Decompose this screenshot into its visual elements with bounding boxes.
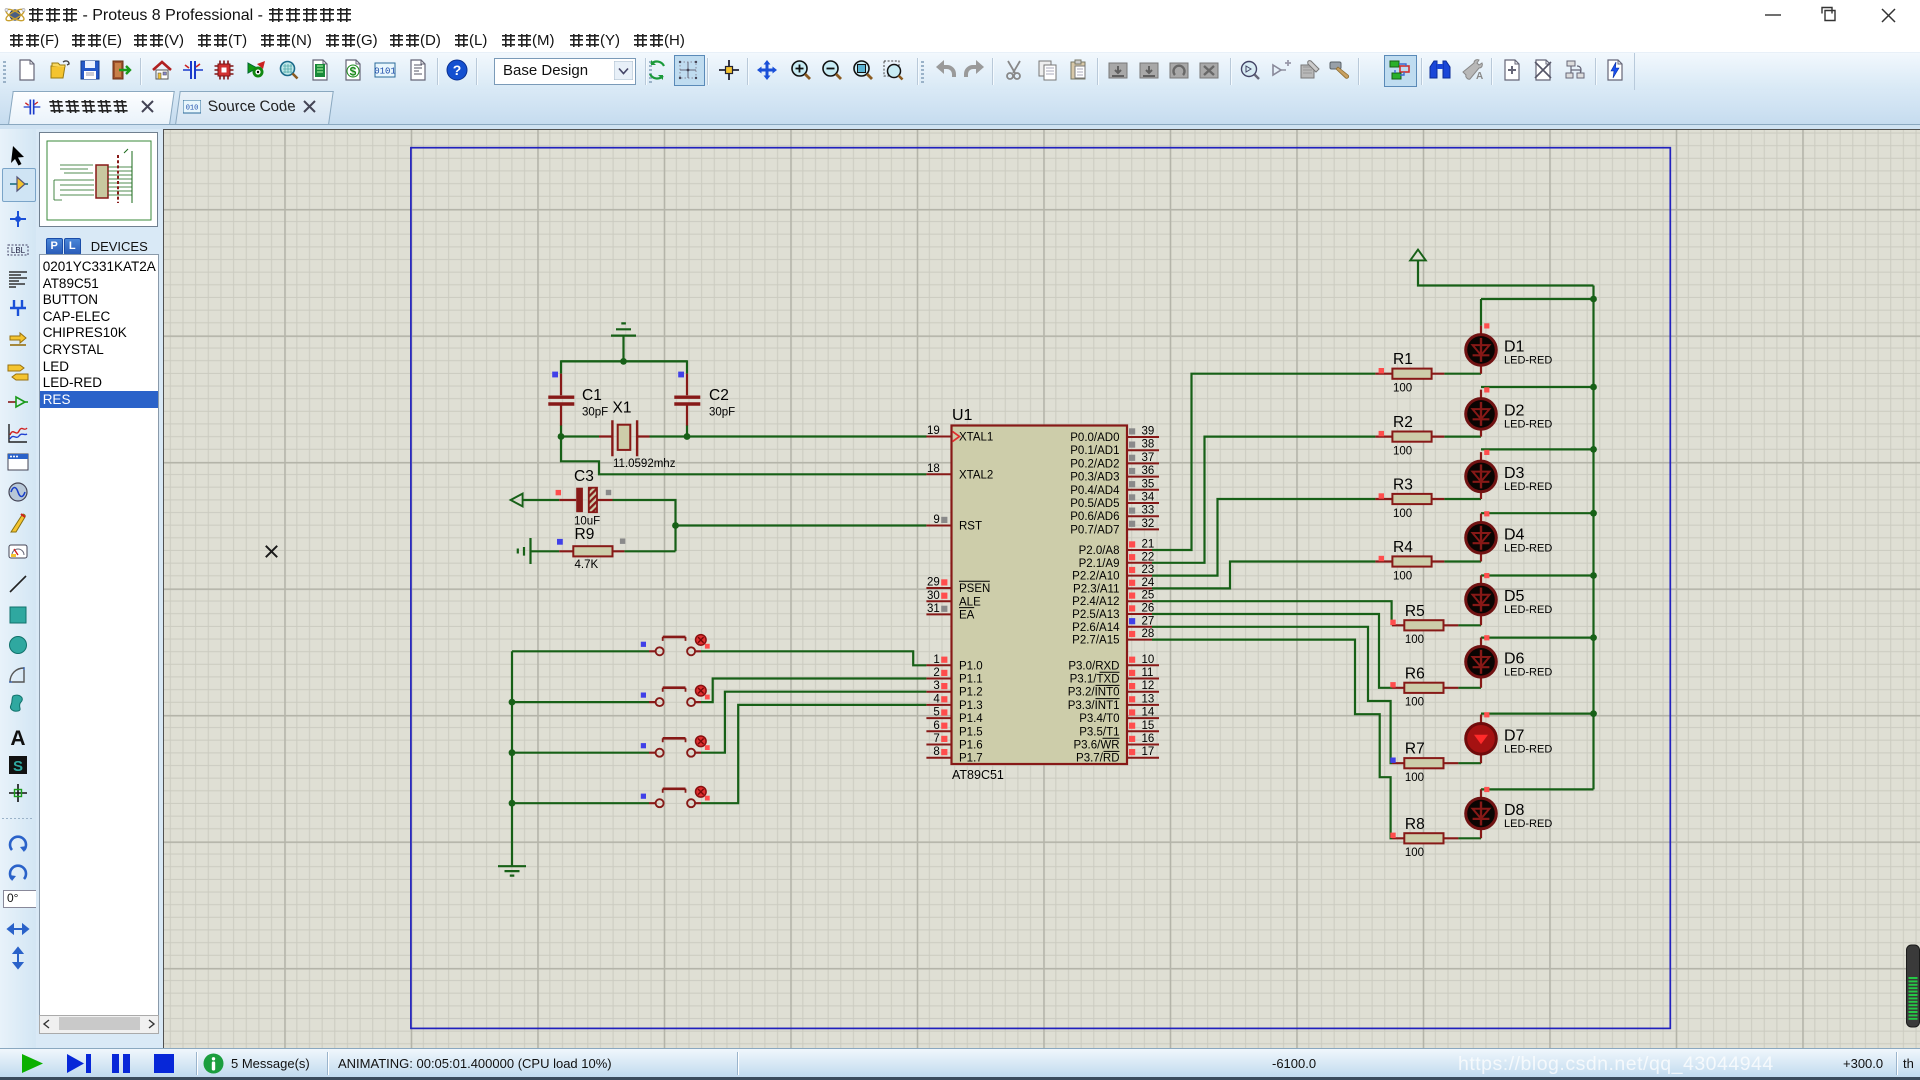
wire: D4 anode to bus <box>1481 512 1594 514</box>
resistor R5 100 <box>1390 603 1481 646</box>
junction: bus/D1 <box>1590 296 1597 303</box>
wire: P2.3 to R4 <box>1152 562 1375 589</box>
svg-text:R2: R2 <box>1393 414 1413 431</box>
left tool: rotate ccw <box>6 862 30 886</box>
svg-text:P1.5: P1.5 <box>959 726 983 738</box>
svg-text:LED-RED: LED-RED <box>1504 666 1552 678</box>
svg-text:EA: EA <box>959 609 975 621</box>
left tool: bus <box>6 296 30 320</box>
toolbar icon: paste <box>1067 58 1091 82</box>
svg-text:34: 34 <box>1142 492 1155 504</box>
svg-text:R7: R7 <box>1405 741 1425 758</box>
svg-text:D4: D4 <box>1504 526 1525 543</box>
ground (below buttons) <box>498 862 526 876</box>
left tool: voltage probe <box>6 511 30 535</box>
wire: RST to chip <box>676 524 927 526</box>
svg-text:P3.6/WR: P3.6/WR <box>1073 740 1119 752</box>
toolbar icon: zoom out <box>820 58 844 82</box>
wire: P2.6 to R7 <box>1152 627 1392 763</box>
svg-text:P1.3: P1.3 <box>959 700 983 712</box>
resistor R9 4.7K <box>557 526 625 571</box>
svg-text:32: 32 <box>1142 518 1155 530</box>
wire: P2.4 to R5 <box>1152 601 1392 625</box>
LED D1 LED-RED <box>1466 323 1553 373</box>
left tool: current probe <box>6 540 30 564</box>
left tool: graph mode <box>6 421 30 445</box>
wire: bus to button 3 <box>512 752 649 754</box>
svg-text:2: 2 <box>933 667 939 679</box>
svg-text:21: 21 <box>1142 539 1155 551</box>
svg-text:31: 31 <box>927 603 940 615</box>
junction: C2 bottom <box>684 433 691 440</box>
wire: P2.7 to R8 <box>1152 640 1392 839</box>
junction: bus/button 3 <box>509 749 516 756</box>
menu bar <box>0 30 1920 52</box>
wire: D3 anode to bus <box>1481 448 1594 450</box>
status bar <box>0 1048 1920 1078</box>
wire: LED supply bus <box>1592 286 1594 790</box>
svg-text:LED-RED: LED-RED <box>1504 604 1552 616</box>
svg-text:P0.1/AD1: P0.1/AD1 <box>1070 445 1119 457</box>
svg-text:4: 4 <box>933 693 940 705</box>
toolbar icon: remove sheet <box>1531 58 1555 82</box>
svg-text:P2.4/A12: P2.4/A12 <box>1072 596 1119 608</box>
junction: RST node <box>672 522 679 529</box>
wire: D6 anode to bus <box>1481 636 1594 638</box>
toolbar icon: 3d viewer <box>244 58 268 82</box>
left tool column <box>0 129 36 1048</box>
svg-text:R5: R5 <box>1405 603 1425 620</box>
rotation angle box <box>3 890 38 908</box>
wire: P2.2 to R3 <box>1152 499 1375 576</box>
wire: bus to button 2 <box>512 701 649 703</box>
sheet border <box>411 148 1670 1029</box>
svg-text:LED-RED: LED-RED <box>1504 743 1552 755</box>
toolbar icon: property tool <box>1460 58 1484 82</box>
junction: bus/D6 <box>1590 634 1597 641</box>
capacitor C1 <box>548 372 608 426</box>
svg-text:P1.2: P1.2 <box>959 687 983 699</box>
wire: D7 anode to bus <box>1481 712 1594 714</box>
svg-text:AT89C51: AT89C51 <box>952 768 1004 782</box>
toolbar icon: reports <box>406 58 430 82</box>
wire: P2.0 to R1 <box>1152 374 1375 550</box>
wire: D1 anode drop <box>1480 299 1482 326</box>
resistor R1 100 <box>1375 351 1481 394</box>
svg-text:30pF: 30pF <box>582 406 608 418</box>
svg-text:28: 28 <box>1142 628 1155 640</box>
svg-text:P1.4: P1.4 <box>959 713 983 725</box>
combobox Base Design <box>494 58 636 85</box>
svg-text:100: 100 <box>1405 847 1424 859</box>
svg-text:0101: 0101 <box>374 67 396 77</box>
svg-text:P0.3/AD3: P0.3/AD3 <box>1070 472 1119 484</box>
svg-text:22: 22 <box>1142 551 1155 563</box>
svg-text:C1: C1 <box>582 387 602 404</box>
wire: D1 anode to bus <box>1481 298 1594 300</box>
svg-text:100: 100 <box>1393 570 1412 582</box>
toolbar icon: packaging tool <box>1298 58 1322 82</box>
svg-text:100: 100 <box>1405 772 1424 784</box>
junction: bus/D4 <box>1590 510 1597 517</box>
svg-text:P1.7: P1.7 <box>959 753 983 765</box>
resistor R7 100 <box>1390 741 1481 784</box>
toolbar icon: pan <box>755 58 779 82</box>
power terminal (left arrow at C3) <box>511 494 560 507</box>
svg-text:X1: X1 <box>613 400 632 417</box>
svg-text:30: 30 <box>927 590 940 602</box>
svg-text:18: 18 <box>927 463 940 475</box>
toolbar icon: zoom to child <box>1564 58 1588 82</box>
wire: C3 to RST node <box>613 500 676 551</box>
left tool: 2d text <box>6 725 30 749</box>
svg-text:25: 25 <box>1142 590 1155 602</box>
svg-text:D2: D2 <box>1504 402 1525 419</box>
junction: bus/D7 <box>1590 710 1597 717</box>
LED D4 LED-RED <box>1466 511 1553 561</box>
toolbar icon: electrical check <box>1603 58 1627 82</box>
resistor R2 100 <box>1375 414 1481 457</box>
svg-text:C3: C3 <box>574 468 594 485</box>
svg-text:D6: D6 <box>1504 650 1525 667</box>
toolbar icon: source code <box>373 58 397 82</box>
svg-text:4.7K: 4.7K <box>575 559 599 571</box>
minimap overview <box>39 132 158 227</box>
svg-text:P0.0/AD0: P0.0/AD0 <box>1070 432 1119 444</box>
wire: button ground bus <box>511 651 513 862</box>
svg-text:37: 37 <box>1142 452 1155 464</box>
svg-text:P2.5/A13: P2.5/A13 <box>1072 609 1119 621</box>
left tool: subcircuit <box>6 328 30 352</box>
left tool: 2d line <box>6 572 30 596</box>
svg-text:LBL: LBL <box>11 246 26 255</box>
left tool: 2d box <box>6 603 30 627</box>
left tool: text script <box>6 267 30 291</box>
toolbar icon: make device <box>1328 58 1352 82</box>
svg-text:1: 1 <box>933 654 939 666</box>
svg-text:11.0592mhz: 11.0592mhz <box>613 458 676 470</box>
toolbar icon: block copy <box>1106 58 1130 82</box>
svg-text:R3: R3 <box>1393 477 1413 494</box>
button SW4 <box>641 787 710 808</box>
wire: button 1 to P1.0 <box>701 651 926 665</box>
svg-text:P1.0: P1.0 <box>959 660 983 672</box>
toolbar <box>0 52 1920 91</box>
device list <box>39 254 160 1017</box>
junction: C1 bottom <box>558 433 565 440</box>
left tool: marker <box>6 781 30 805</box>
svg-text:P0.5/AD5: P0.5/AD5 <box>1070 498 1119 510</box>
wire: button 3 to P1.2 <box>701 692 926 753</box>
svg-text:P0.2/AD2: P0.2/AD2 <box>1070 458 1119 470</box>
svg-text:U1: U1 <box>952 407 973 424</box>
toolbar icon: gerber viewer <box>277 58 301 82</box>
wire: bus to button 1 <box>512 650 649 652</box>
toolbar icon: new design <box>15 58 39 82</box>
svg-text:P2.3/A11: P2.3/A11 <box>1073 583 1119 595</box>
svg-text:C2: C2 <box>709 387 729 404</box>
svg-text:39: 39 <box>1142 426 1155 438</box>
origin marker <box>266 546 277 557</box>
svg-text:LED-RED: LED-RED <box>1504 481 1552 493</box>
title bar <box>0 0 1920 30</box>
svg-text:14: 14 <box>1142 707 1155 719</box>
svg-text:ALE: ALE <box>959 596 981 608</box>
toolbar icon: redo <box>963 58 987 82</box>
svg-text:LED-RED: LED-RED <box>1504 354 1552 366</box>
resistor R6 100 <box>1390 665 1481 708</box>
message icon <box>203 1053 224 1074</box>
wire: XTAL1 row <box>561 435 927 437</box>
junction: gnd/top rail <box>620 358 627 365</box>
svg-text:R9: R9 <box>575 526 595 543</box>
tab: schematic capture (active) <box>22 97 42 117</box>
left panel <box>36 129 163 1048</box>
wire: R9 to RST node <box>624 550 675 552</box>
left tool: wire label <box>6 238 30 262</box>
toolbar icon: bom <box>341 58 365 82</box>
button SW3 <box>641 736 710 757</box>
power terminal (up arrow, LED supply) <box>1410 250 1593 286</box>
LED D6 LED-RED <box>1466 635 1553 688</box>
svg-text:P3.7/RD: P3.7/RD <box>1076 753 1119 765</box>
LED D2 LED-RED <box>1466 387 1553 436</box>
svg-text:7: 7 <box>933 733 939 745</box>
tab: Source Code <box>183 100 201 114</box>
canvas <box>163 129 1920 1049</box>
toolbar icon: toggle grid <box>676 58 700 82</box>
svg-text:10: 10 <box>1142 654 1155 666</box>
left tool: rotate cw <box>6 833 30 857</box>
junction: bus/D5 <box>1590 572 1597 579</box>
left tool: terminal <box>6 359 30 383</box>
junction: bus/D2 <box>1590 384 1597 391</box>
resistor R3 100 <box>1375 477 1481 520</box>
wire: button 4 to P1.3 <box>701 705 926 803</box>
crystal X1 <box>599 400 676 471</box>
svg-text:6: 6 <box>933 720 939 732</box>
svg-text:38: 38 <box>1142 439 1155 451</box>
resistor R4 100 <box>1375 539 1481 582</box>
svg-text:R6: R6 <box>1405 665 1425 682</box>
button SW1 <box>641 635 710 656</box>
svg-text:PSEN: PSEN <box>959 583 990 595</box>
toolbar icon: zoom window <box>851 58 875 82</box>
wire: D2 anode to bus <box>1481 386 1594 388</box>
stop button <box>152 1052 177 1075</box>
svg-text:5: 5 <box>933 707 939 719</box>
left tool: 2d circle <box>6 633 30 657</box>
svg-text:R4: R4 <box>1393 539 1413 556</box>
svg-text:P3.4/T0: P3.4/T0 <box>1079 713 1119 725</box>
left tool: component mode <box>6 172 30 196</box>
svg-text:P1.1: P1.1 <box>959 674 983 686</box>
svg-text:XTAL2: XTAL2 <box>959 469 993 481</box>
svg-text:P3.0/RXD: P3.0/RXD <box>1068 660 1119 672</box>
toolbar icon: import <box>109 58 133 82</box>
svg-text:23: 23 <box>1142 564 1155 576</box>
wire: bus to button 4 <box>512 802 649 804</box>
svg-text:100: 100 <box>1393 383 1412 395</box>
svg-text:11: 11 <box>1142 667 1154 679</box>
svg-text:30pF: 30pF <box>709 406 735 418</box>
toolbar icon: origin <box>717 58 741 82</box>
left tool: generator <box>6 480 30 504</box>
toolbar icon: undo <box>933 58 957 82</box>
svg-text:XTAL1: XTAL1 <box>959 432 993 444</box>
svg-text:R1: R1 <box>1393 351 1413 368</box>
svg-text:P2.1/A9: P2.1/A9 <box>1079 558 1120 570</box>
toolbar icon: new sheet <box>1500 58 1524 82</box>
toolbar icon: refresh <box>645 58 669 82</box>
svg-text:13: 13 <box>1142 693 1155 705</box>
svg-text:26: 26 <box>1142 603 1155 615</box>
svg-text:$: $ <box>350 65 357 79</box>
svg-text:P2.6/A14: P2.6/A14 <box>1072 622 1120 634</box>
play button <box>20 1052 46 1075</box>
toolbar icon: design explorer 2 <box>1388 58 1412 82</box>
capacitor C2 <box>674 372 735 426</box>
svg-text:P0.6/AD6: P0.6/AD6 <box>1070 511 1119 523</box>
svg-text:P0.7/AD7: P0.7/AD7 <box>1070 524 1119 536</box>
svg-text:D3: D3 <box>1504 465 1525 482</box>
button SW2 <box>641 685 710 706</box>
wire: C1/C2 top rail <box>561 361 687 436</box>
svg-text:P3.5/T1: P3.5/T1 <box>1079 726 1119 738</box>
svg-text:100: 100 <box>1405 697 1424 709</box>
svg-text:P0.4/AD4: P0.4/AD4 <box>1070 485 1120 497</box>
toolbar icon: add gate <box>1268 58 1292 82</box>
toolbar icon: cut <box>1002 58 1026 82</box>
wire: XTAL2 route <box>561 437 926 475</box>
wire: P2.1 to R2 <box>1152 437 1375 563</box>
LED D5 LED-RED <box>1466 573 1553 625</box>
svg-text:LED-RED: LED-RED <box>1504 542 1552 554</box>
left tool: selection mode <box>6 144 30 168</box>
left tool: 2d path <box>6 692 30 716</box>
svg-text:16: 16 <box>1142 733 1155 745</box>
svg-text:S: S <box>13 758 23 775</box>
toolbar icon: home <box>150 58 174 82</box>
svg-text:100: 100 <box>1393 508 1412 520</box>
toolbar icon: help <box>445 58 469 82</box>
list scrollbar <box>39 1015 160 1034</box>
toolbar icon: save design <box>78 58 102 82</box>
svg-text:P2.0/A8: P2.0/A8 <box>1079 545 1120 557</box>
toolbar icon: goto gate <box>1238 58 1262 82</box>
left tool: flip vertical <box>6 946 30 970</box>
wire: D5 anode to bus <box>1481 574 1594 576</box>
cpu load gauge <box>1907 945 1920 1027</box>
svg-text:17: 17 <box>1142 746 1155 758</box>
U1 right pins (stubs, numbers, state squares, names) <box>1068 426 1159 765</box>
toolbar icon: schematic capture <box>181 58 205 82</box>
svg-text:LED-RED: LED-RED <box>1504 418 1552 430</box>
left tool: tape recorder <box>6 450 30 474</box>
svg-text:R8: R8 <box>1405 816 1425 833</box>
svg-text:A: A <box>1476 71 1483 82</box>
svg-text:15: 15 <box>1142 720 1155 732</box>
wire: D8 anode to bus <box>1481 788 1594 790</box>
toolbar icon: zoom area <box>881 58 905 82</box>
toolbar icon: block move <box>1137 58 1161 82</box>
junction: bus/button 4 <box>509 800 516 807</box>
svg-text:100: 100 <box>1393 445 1412 457</box>
svg-text:A: A <box>10 727 25 749</box>
left tool: 2d arc <box>6 663 30 687</box>
LED D7 LED-RED <box>1466 712 1553 763</box>
svg-text:RST: RST <box>959 521 982 533</box>
left tool: junction dot <box>6 207 30 231</box>
pause button <box>109 1052 134 1075</box>
svg-text:LED-RED: LED-RED <box>1504 818 1552 830</box>
toolbar icon: block delete <box>1197 58 1221 82</box>
svg-text:3: 3 <box>933 680 939 692</box>
svg-text:P3.3/INT1: P3.3/INT1 <box>1068 700 1120 712</box>
svg-text:19: 19 <box>927 425 940 437</box>
ground (top, above C1/C2) <box>611 323 636 361</box>
svg-text:12: 12 <box>1142 680 1155 692</box>
svg-text:100: 100 <box>1405 634 1424 646</box>
svg-text:D5: D5 <box>1504 588 1525 605</box>
svg-text:24: 24 <box>1142 577 1155 589</box>
junction: bus/D3 <box>1590 446 1597 453</box>
svg-text:36: 36 <box>1142 465 1155 477</box>
toolbar icon: design explorer <box>308 58 332 82</box>
junction: bus/button 2 <box>509 699 516 706</box>
microcontroller U1 AT89C51 <box>952 407 1128 782</box>
capacitor C3 (electrolytic 10uF) <box>556 468 613 528</box>
toolbar icon: copy <box>1036 58 1060 82</box>
wire: button 2 to P1.1 <box>701 679 926 703</box>
wire: P2.5 to R6 <box>1152 614 1392 688</box>
svg-text:29: 29 <box>927 577 940 589</box>
svg-text:P1.6: P1.6 <box>959 740 983 752</box>
svg-text:D7: D7 <box>1504 727 1525 744</box>
left tool: flip horizontal <box>6 917 30 941</box>
ground (rotated, left of R9) <box>518 538 559 564</box>
LED D3 LED-RED <box>1466 450 1553 499</box>
left tool: device pin <box>6 390 30 414</box>
toolbar icon: zoom in <box>789 58 813 82</box>
LED D8 LED-RED <box>1466 787 1553 838</box>
step button <box>65 1052 92 1075</box>
svg-text:D8: D8 <box>1504 802 1525 819</box>
svg-text:P2.2/A10: P2.2/A10 <box>1072 571 1119 583</box>
svg-text:?: ? <box>453 62 462 78</box>
svg-text:010: 010 <box>186 105 199 113</box>
resistor R8 100 <box>1390 816 1481 859</box>
svg-text:33: 33 <box>1142 505 1155 517</box>
toolbar icon: find component <box>1428 58 1452 82</box>
svg-text:P3.2/INT0: P3.2/INT0 <box>1068 687 1120 699</box>
left tool: 2d symbol <box>6 753 30 777</box>
svg-text:35: 35 <box>1142 478 1155 490</box>
toolbar icon: open design <box>49 58 73 82</box>
svg-text:P3.1/TXD: P3.1/TXD <box>1070 674 1120 686</box>
svg-text:27: 27 <box>1142 615 1155 627</box>
svg-text:8: 8 <box>933 746 939 758</box>
U1 left pins (stubs, numbers, state squares, names) <box>926 425 993 765</box>
svg-text:P2.7/A15: P2.7/A15 <box>1072 635 1119 647</box>
tab strip <box>0 90 1920 129</box>
svg-text:9: 9 <box>933 514 939 526</box>
svg-text:D1: D1 <box>1504 338 1525 355</box>
toolbar icon: pcb layout <box>212 58 236 82</box>
toolbar icon: block rotate <box>1167 58 1191 82</box>
devices header <box>39 238 158 254</box>
